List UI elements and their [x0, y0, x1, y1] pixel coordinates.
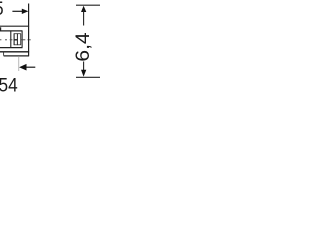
right dimension: bottom extension line: [76, 76, 100, 78]
internal divider V1: [10, 31, 12, 48]
inner cavity right V4: [20, 34, 22, 45]
technical dimension drawing, cropped detail: [0, 0, 100, 100]
inner cavity top H3: [14, 33, 21, 35]
top dimension arrowhead (points right): [22, 9, 29, 14]
right dimension: down arrowhead: [81, 70, 86, 77]
clipped edge mark at left border: [0, 27, 2, 31]
bottom dimension arrowhead (points left): [19, 64, 26, 71]
bottom dimension extension line (faint): [18, 57, 20, 71]
body outer top edge H1: [0, 25, 29, 27]
svg-text:5: 5: [0, 0, 4, 19]
extension line / body right edge: [28, 4, 30, 56]
base flange bottom H7: [4, 55, 30, 57]
body inner bottom edge H5: [0, 47, 23, 49]
body inner top edge H2: [0, 30, 23, 32]
right dimension: top extension line: [76, 4, 100, 6]
bottom dimension shaft: [26, 66, 35, 68]
right dimension: upper shaft: [83, 10, 85, 26]
svg-text:6,4: 6,4: [73, 32, 94, 61]
contact pocket middle V3: [16, 33, 18, 45]
top dimension line (shaft): [12, 10, 22, 12]
svg-text:54: 54: [0, 73, 18, 95]
right dimension: lower shaft: [83, 62, 85, 72]
right dimension: up arrowhead: [81, 6, 86, 12]
base flange left edge V6: [3, 52, 5, 56]
body outer bottom edge H6: [0, 51, 29, 53]
inner wall right V5: [21, 31, 23, 48]
contact bar on centreline: [14, 39, 18, 41]
centreline (dash-dot): [0, 39, 31, 41]
contact pocket left V2: [13, 33, 15, 45]
inner cavity bottom H4: [14, 44, 21, 46]
